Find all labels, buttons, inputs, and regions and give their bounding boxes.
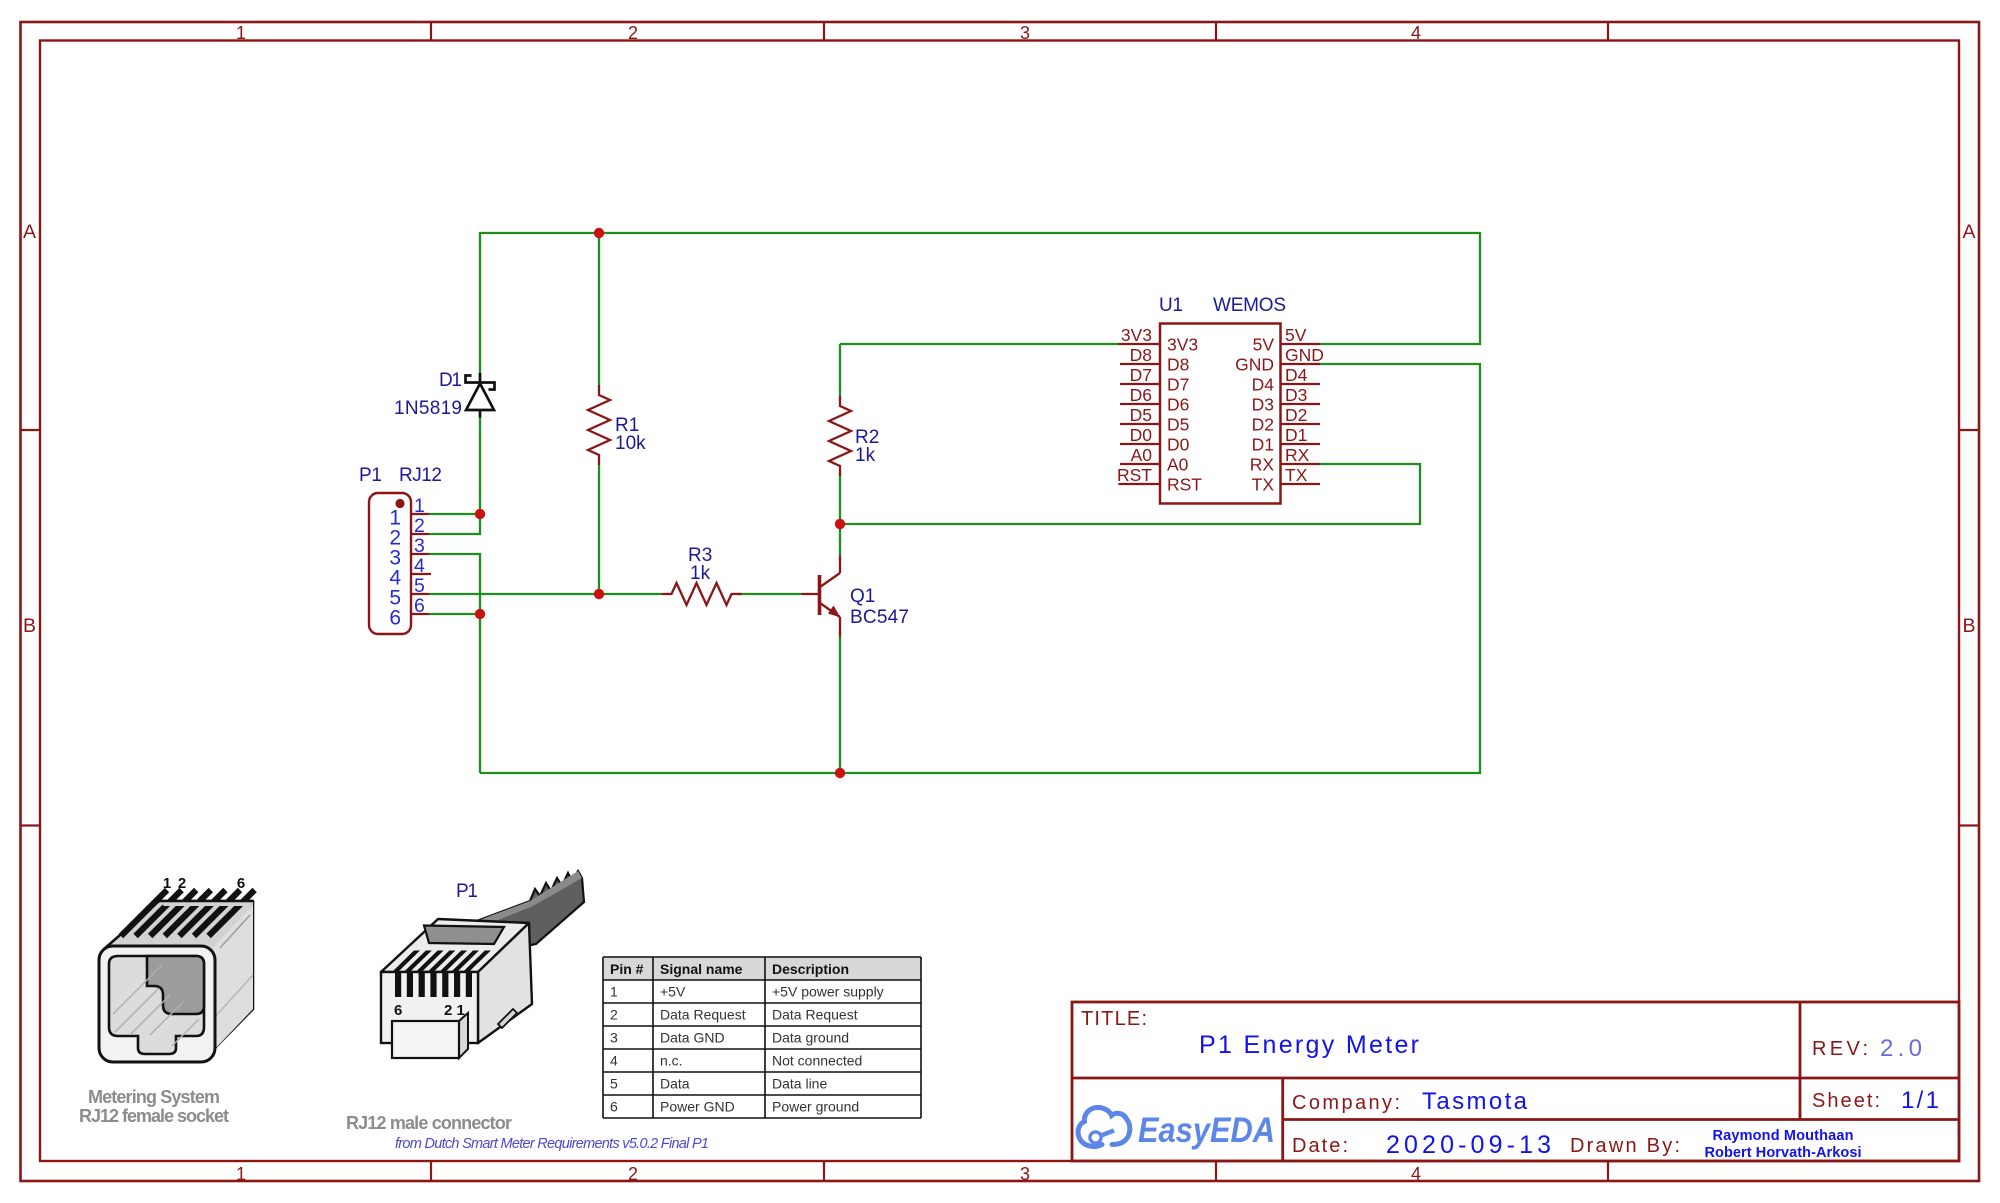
- svg-text:5V: 5V: [1285, 325, 1307, 345]
- U1 left pin net label RST: [1117, 465, 1160, 485]
- svg-text:5V: 5V: [1253, 335, 1275, 355]
- frame column labels bottom: [236, 1164, 1421, 1184]
- svg-text:Robert Horvath-Arkosi: Robert Horvath-Arkosi: [1705, 1145, 1862, 1161]
- svg-text:Data line: Data line: [772, 1076, 827, 1092]
- resistor R1: [588, 385, 610, 465]
- P1 pin 6 stub: [411, 613, 429, 615]
- U1 left pin RST: [1120, 483, 1160, 485]
- EasyEDA logo: [1078, 1107, 1275, 1150]
- svg-text:Pin #: Pin #: [610, 961, 644, 977]
- wire node to Q1 collector: [839, 524, 841, 556]
- svg-text:1/1: 1/1: [1901, 1087, 1939, 1114]
- svg-text:D1: D1: [1285, 425, 1307, 445]
- IC U1 WEMOS body: [1160, 324, 1281, 504]
- svg-text:n.c.: n.c.: [660, 1053, 683, 1069]
- P1 pin 5 stub: [411, 593, 429, 595]
- transistor Q1 BC547: [802, 556, 841, 638]
- wire R1 top lead to 5V rail: [598, 233, 600, 385]
- frame zone ticks top: [431, 22, 1608, 40]
- U1 left pin D7: [1120, 383, 1160, 385]
- junction node P1 pin1-pin2 / D1: [475, 509, 485, 519]
- svg-text:RJ12: RJ12: [399, 465, 442, 486]
- svg-text:Data Request: Data Request: [660, 1007, 746, 1023]
- wire D1 bottom to P1 pin1 node: [479, 417, 481, 515]
- svg-text:Power GND: Power GND: [660, 1099, 735, 1115]
- svg-text:+5V power supply: +5V power supply: [772, 984, 884, 1000]
- wire P1 pin1 to node: [429, 513, 480, 515]
- svg-text:D5: D5: [1167, 415, 1189, 435]
- svg-text:B: B: [23, 615, 36, 637]
- frame row labels left: [23, 221, 36, 637]
- svg-text:D2: D2: [1252, 415, 1274, 435]
- U1 right pin net label D4: [1285, 365, 1308, 385]
- svg-text:4: 4: [414, 555, 425, 577]
- junction node R1 bottom / pin5 / R3: [594, 589, 604, 599]
- svg-text:2.0: 2.0: [1880, 1035, 1922, 1062]
- U1 right pin net label D1: [1285, 425, 1307, 445]
- junction node emitter / GND rail: [835, 768, 845, 778]
- svg-text:1: 1: [414, 495, 425, 517]
- P1 pin 2 stub: [411, 533, 429, 535]
- svg-text:TX: TX: [1252, 475, 1275, 495]
- wire R2 bottom lead to node: [839, 474, 841, 524]
- svg-text:GND: GND: [1285, 345, 1324, 365]
- svg-text:D0: D0: [1130, 425, 1153, 445]
- svg-text:A0: A0: [1131, 445, 1153, 465]
- U1 left pin A0: [1120, 463, 1160, 465]
- RJ12 pinout table: [603, 957, 921, 1118]
- svg-text:Drawn By:: Drawn By:: [1570, 1135, 1680, 1157]
- svg-text:1k: 1k: [855, 445, 876, 466]
- junction node pin6 / GND stem: [475, 609, 485, 619]
- svg-text:EasyEDA: EasyEDA: [1138, 1111, 1275, 1150]
- svg-text:A0: A0: [1167, 455, 1189, 475]
- svg-text:Signal name: Signal name: [660, 961, 743, 977]
- U1 left pin net label D5: [1130, 405, 1160, 425]
- svg-text:2: 2: [628, 1164, 638, 1184]
- U1 right pin D3: [1281, 403, 1321, 405]
- U1 right pin D4: [1281, 383, 1321, 385]
- junction node R2 / collector / RX: [835, 519, 845, 529]
- U1 right pin D2: [1281, 423, 1321, 425]
- svg-text:Metering System: Metering System: [88, 1087, 220, 1107]
- svg-text:Company:: Company:: [1292, 1092, 1400, 1114]
- svg-text:Power ground: Power ground: [772, 1099, 859, 1115]
- svg-text:Data GND: Data GND: [660, 1030, 725, 1046]
- svg-text:5: 5: [414, 575, 425, 597]
- svg-text:D1: D1: [439, 370, 462, 391]
- title block frame: [1072, 1002, 1959, 1161]
- svg-text:10k: 10k: [615, 433, 646, 454]
- U1 right pin GND: [1281, 363, 1321, 365]
- svg-text:RX: RX: [1250, 455, 1275, 475]
- wire R3 to Q1 base: [738, 593, 802, 595]
- svg-text:D0: D0: [1167, 435, 1190, 455]
- svg-text:3: 3: [610, 1030, 618, 1046]
- U1 left pin net label D0: [1130, 425, 1160, 445]
- svg-text:RST: RST: [1117, 465, 1152, 485]
- RJ12 male connector illustration: [346, 871, 584, 1133]
- svg-text:D7: D7: [1130, 365, 1152, 385]
- svg-text:D5: D5: [1130, 405, 1152, 425]
- svg-text:1k: 1k: [690, 563, 711, 584]
- wire R2 top lead: [839, 344, 841, 396]
- frame zone ticks left: [20, 430, 40, 826]
- wire Q1 collector node to U1 RX pin: [840, 464, 1420, 524]
- svg-text:1N5819: 1N5819: [394, 398, 462, 419]
- svg-text:D3: D3: [1252, 395, 1274, 415]
- U1 right pin net label RX: [1285, 445, 1310, 465]
- svg-text:6: 6: [610, 1099, 618, 1115]
- resistor R3: [662, 583, 742, 605]
- svg-text:1: 1: [610, 984, 618, 1000]
- wire R1 bottom lead: [598, 465, 600, 594]
- svg-text:Q1: Q1: [850, 586, 875, 607]
- svg-text:TITLE:: TITLE:: [1081, 1008, 1147, 1030]
- svg-text:3V3: 3V3: [1121, 325, 1152, 345]
- U1 right pin net label D2: [1285, 405, 1307, 425]
- wire GND rail to U1 GND pin: [480, 364, 1480, 773]
- svg-text:4: 4: [1411, 23, 1421, 43]
- U1 left pin D5: [1120, 423, 1160, 425]
- svg-text:RX: RX: [1285, 445, 1310, 465]
- frame row labels right: [1962, 221, 1975, 637]
- svg-text:Description: Description: [772, 961, 849, 977]
- P1 pin 4 stub: [411, 573, 431, 575]
- U1 left pin net label A0: [1130, 445, 1160, 465]
- svg-text:3: 3: [1020, 1164, 1030, 1184]
- U1 left pin net label D6: [1130, 385, 1160, 405]
- U1 right pin net label 5V: [1285, 325, 1307, 345]
- U1 left pin net label 3V3: [1118, 325, 1160, 345]
- svg-text:RJ12 male connector: RJ12 male connector: [346, 1113, 512, 1133]
- frame zone ticks bottom: [431, 1161, 1608, 1181]
- svg-text:Data ground: Data ground: [772, 1030, 849, 1046]
- wire R2 top to U1 3V3 pin: [840, 343, 1120, 345]
- svg-text:Raymond Mouthaan: Raymond Mouthaan: [1713, 1128, 1854, 1144]
- svg-text:RST: RST: [1167, 475, 1202, 495]
- svg-text:P1: P1: [359, 465, 382, 486]
- U1 left pin net label D7: [1130, 365, 1160, 385]
- svg-text:3: 3: [1020, 23, 1030, 43]
- svg-text:4: 4: [610, 1053, 618, 1069]
- svg-text:Data: Data: [660, 1076, 690, 1092]
- U1 right pin net label TX: [1285, 465, 1308, 485]
- U1 left pin 3V3: [1120, 343, 1160, 345]
- U1 left pin D6: [1120, 403, 1160, 405]
- svg-text:BC547: BC547: [850, 607, 909, 628]
- wire P1 pin3 down to GND rail: [429, 554, 480, 773]
- svg-text:D3: D3: [1285, 385, 1307, 405]
- wire 5V rail: D1 top / R1 top / U1 5V pin: [480, 233, 1480, 376]
- frame zone ticks right: [1959, 430, 1979, 826]
- junction node 5V rail / R1 top: [594, 228, 604, 238]
- svg-text:D7: D7: [1167, 375, 1189, 395]
- U1 right pin net label GND: [1285, 345, 1324, 365]
- svg-text:D8: D8: [1167, 355, 1189, 375]
- svg-text:2: 2: [414, 515, 425, 537]
- svg-text:D6: D6: [1130, 385, 1152, 405]
- U1 right pin RX: [1281, 463, 1321, 465]
- svg-text:D8: D8: [1130, 345, 1152, 365]
- svg-text:2 1: 2 1: [444, 1002, 465, 1019]
- wire P1 pin2 up to node: [429, 514, 480, 534]
- svg-text:TX: TX: [1285, 465, 1308, 485]
- U1 left pin D8: [1120, 363, 1160, 365]
- U1 right pin TX: [1281, 483, 1321, 485]
- svg-text:D4: D4: [1285, 365, 1308, 385]
- svg-text:1: 1: [236, 23, 246, 43]
- svg-text:+5V: +5V: [660, 984, 686, 1000]
- svg-text:3: 3: [414, 535, 425, 557]
- U1 left pin net label D8: [1130, 345, 1160, 365]
- wire Q1 emitter to GND rail: [839, 637, 841, 773]
- wire node to R3: [599, 593, 662, 595]
- svg-text:D4: D4: [1252, 375, 1275, 395]
- wire P1 pin6 to GND stem: [429, 613, 480, 615]
- svg-text:RJ12 female socket: RJ12 female socket: [79, 1106, 229, 1126]
- svg-text:2: 2: [610, 1007, 618, 1023]
- svg-text:D1: D1: [1252, 435, 1274, 455]
- svg-text:4: 4: [1411, 1164, 1421, 1184]
- svg-text:WEMOS: WEMOS: [1213, 295, 1286, 316]
- svg-text:6: 6: [414, 595, 425, 617]
- svg-text:from Dutch Smart Meter Require: from Dutch Smart Meter Requirements v5.0…: [395, 1136, 709, 1152]
- diode D1 1N5819: [466, 373, 495, 418]
- svg-text:6: 6: [394, 1002, 402, 1019]
- svg-text:3V3: 3V3: [1167, 335, 1198, 355]
- wire P1 pin5 to R1 bottom node: [429, 593, 599, 595]
- svg-text:D6: D6: [1167, 395, 1189, 415]
- svg-text:D2: D2: [1285, 405, 1307, 425]
- svg-text:Data Request: Data Request: [772, 1007, 858, 1023]
- U1 right pin 5V: [1281, 343, 1321, 345]
- resistor R2: [829, 396, 851, 476]
- RJ12 female socket illustration: [79, 875, 255, 1126]
- svg-text:A: A: [1962, 221, 1975, 243]
- P1 pin 1 stub: [411, 513, 429, 515]
- frame column labels top: [236, 23, 1421, 43]
- svg-text:2: 2: [628, 23, 638, 43]
- svg-text:Not connected: Not connected: [772, 1053, 862, 1069]
- P1 pin 3 stub: [411, 553, 429, 555]
- U1 right pin D1: [1281, 443, 1321, 445]
- svg-text:5: 5: [610, 1076, 618, 1092]
- drawn by names: [1705, 1128, 1862, 1161]
- svg-text:A: A: [23, 221, 36, 243]
- svg-text:B: B: [1962, 615, 1975, 637]
- svg-text:U1: U1: [1159, 295, 1183, 316]
- U1 right pin net label D3: [1285, 385, 1307, 405]
- svg-text:P1: P1: [456, 881, 478, 902]
- svg-text:Sheet:: Sheet:: [1812, 1090, 1880, 1112]
- connector P1 RJ12 body: [369, 493, 411, 634]
- svg-text:6: 6: [389, 607, 401, 630]
- P1 pin-1 marker dot: [395, 499, 404, 508]
- svg-text:1: 1: [236, 1164, 246, 1184]
- svg-text:GND: GND: [1235, 355, 1274, 375]
- U1 left pin D0: [1120, 443, 1160, 445]
